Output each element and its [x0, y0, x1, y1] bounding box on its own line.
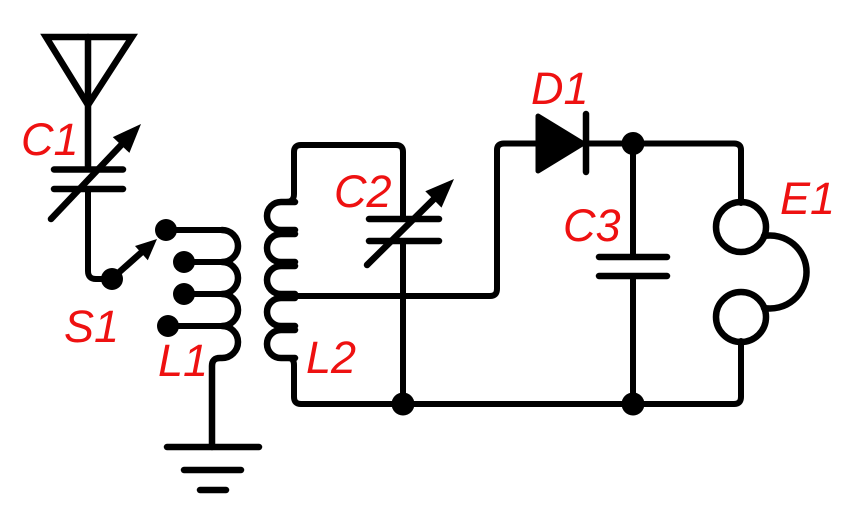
svg-text:C3: C3 [563, 200, 621, 251]
L1 tap wire 2 [184, 259, 222, 265]
bottom rail wire [288, 341, 741, 404]
wire C1 to S1 pole [88, 192, 112, 279]
antenna [46, 37, 132, 166]
junction node C3 bottom [622, 393, 645, 416]
capacitor C2 [367, 179, 454, 265]
L1 tap dot 3 [173, 283, 195, 305]
switch S1 pole dot [101, 268, 123, 290]
diode D1 [538, 114, 586, 172]
ground [167, 447, 259, 490]
earphone E1 [716, 202, 807, 342]
svg-text:S1: S1 [64, 301, 119, 352]
svg-text:L2: L2 [306, 332, 356, 383]
L1 tap dot 1 [155, 219, 177, 241]
L1 tap wire 4 [168, 323, 222, 329]
L1 tap dot 4 [157, 315, 179, 337]
switch S1 arrow [116, 239, 157, 275]
junction node C2 bottom [392, 393, 415, 416]
L1 tap wire 1 [166, 227, 222, 233]
svg-text:E1: E1 [780, 173, 835, 224]
wire L2 tap to diode branch [294, 144, 538, 297]
capacitor C1 [51, 124, 141, 219]
wire D1 to E1 top [586, 144, 741, 204]
capacitor C3 [599, 257, 667, 276]
L1 tap dot 2 [173, 251, 195, 273]
svg-text:D1: D1 [531, 63, 589, 114]
inductor L2 [267, 202, 295, 358]
wire antenna to C1 [85, 105, 91, 166]
inductor L1 [212, 230, 238, 447]
junction node at D1 output [622, 132, 645, 155]
svg-text:C1: C1 [21, 114, 79, 165]
L1 tap wire 3 [184, 291, 222, 297]
wire L2 top to C2 top [286, 145, 403, 216]
wire C3 to bottom rail [630, 279, 636, 404]
svg-text:L1: L1 [158, 335, 208, 386]
wire junction to C3 [630, 144, 636, 255]
svg-text:C2: C2 [334, 166, 392, 217]
wire C2 bottom to bottom rail [400, 244, 406, 404]
